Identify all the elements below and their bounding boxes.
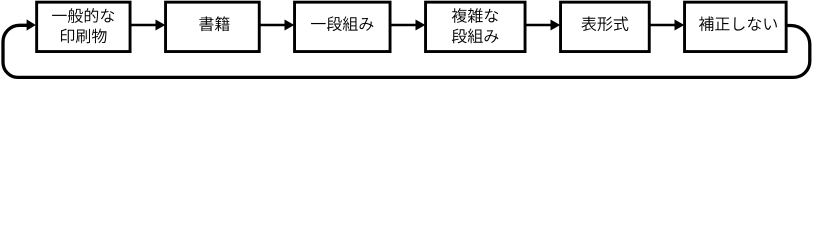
box 5 rectangle (561, 2, 650, 51)
arrow from box 2 to box 3 (260, 24, 286, 27)
loop arrowhead into box 1 (27, 19, 36, 30)
box 6 rectangle (685, 2, 787, 51)
box 1 label line 2 "印刷物" (61, 29, 74, 44)
loop wire from box 6 back to box 1 (3, 25, 810, 77)
box 5 label "表形式" (581, 16, 596, 31)
box 4 rectangle (426, 2, 526, 51)
box 2 label "書籍" (199, 16, 213, 31)
arrow from box 3 to box 4 (391, 24, 417, 27)
box 3 label "一段組み" (311, 23, 326, 24)
box 4 label line 2 "段組み" (452, 29, 467, 44)
box 1 rectangle (37, 2, 130, 51)
box 1 label line 1 "一般的な" (52, 15, 67, 16)
arrow from box 5 to box 6 (650, 24, 676, 27)
arrow from box 1 to box 2 (131, 24, 157, 27)
box 2 rectangle (166, 2, 260, 51)
box 6 label "補正しない" (699, 16, 714, 31)
box 3 rectangle (295, 2, 391, 51)
arrow from box 4 to box 5 (526, 24, 552, 27)
box 4 label line 1 "複雑な" (452, 8, 467, 23)
